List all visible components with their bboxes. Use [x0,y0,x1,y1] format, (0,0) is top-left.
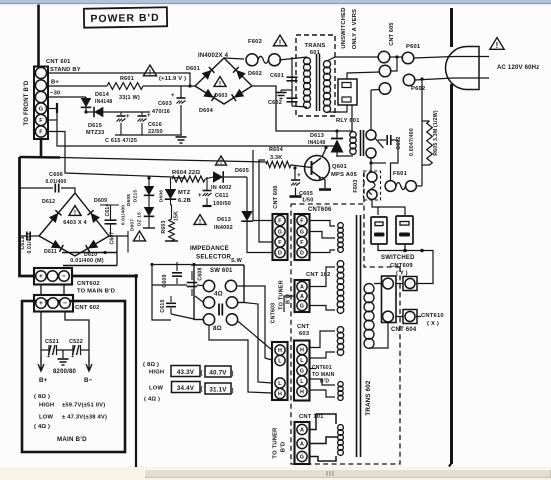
svg-text:C521: C521 [45,339,59,345]
svg-text:−30: −30 [50,91,60,97]
svg-text:D604: D604 [199,108,214,114]
svg-text:RLY 601: RLY 601 [336,118,360,124]
wire SW601 frame top [191,264,244,266]
svg-text:D611: D611 [44,249,57,255]
svg-text:D603: D603 [214,93,227,99]
svg-text:C608: C608 [198,267,204,280]
svg-text:8Ω: 8Ω [213,325,222,332]
capacitor C616 22/50 [141,112,143,115]
svg-text:G: G [39,107,43,113]
svg-text:D615: D615 [88,123,102,129]
svg-text:POWER B'D: POWER B'D [90,12,159,25]
svg-text:D609: D609 [94,198,107,204]
svg-text:SWITCHED: SWITCHED [381,255,415,261]
svg-text:D608: D608 [126,194,132,206]
connector CNT605 pin 1 [378,51,390,63]
svg-text:TO MAIN B’D: TO MAIN B’D [77,289,115,295]
svg-text:43.3V: 43.3V [177,369,195,376]
svg-text:+: + [147,113,151,119]
svg-text:H: H [300,390,304,396]
svg-text:G: G [300,304,304,310]
svg-text:D602: D602 [248,71,262,77]
wire B+ to R601 [47,85,107,87]
wires CNT602 to CNT602 [40,285,42,296]
svg-text:): ) [232,388,234,394]
svg-text:± 47.3V(±38 4V): ± 47.3V(±38 4V) [62,415,107,421]
svg-text:G: G [300,230,304,236]
capacitor C612 [378,139,386,141]
AC outlet switched 2 [396,216,413,244]
wire W3 from CNT601 F pins [47,119,57,121]
heavy wire CNT602 to ground rail [72,275,136,278]
trans602 winding B [337,261,344,268]
svg-text:B+: B+ [51,80,59,86]
ground under C605 [290,195,302,198]
svg-text:R604 22Ω: R604 22Ω [172,170,200,176]
connector CNT610 (X) keyed pin [403,310,417,324]
svg-text:1/50: 1/50 [302,198,314,204]
svg-text:H: H [300,348,304,354]
svg-text:CNT602: CNT602 [77,281,100,287]
warning triangle near zeners [133,231,145,241]
wire STAND BY rail [47,73,190,86]
svg-text:HIGH: HIGH [39,403,54,409]
svg-text:F: F [39,118,43,124]
svg-text:0.01/400: 0.01/400 [121,205,127,225]
warning triangle inside bridge 2 [69,206,81,216]
svg-text:D601: D601 [186,66,200,72]
svg-text:R605 3.3M (1/2W): R605 3.3M (1/2W) [433,110,439,156]
svg-text:CNT: CNT [297,324,310,330]
trans602 winding for CNT606 [338,223,344,229]
svg-text:A: A [300,285,304,291]
capacitor C602 [287,97,298,99]
svg-text:+: + [126,114,130,120]
svg-text:34.4V: 34.4V [177,385,195,392]
svg-text:F: F [278,240,282,246]
wire F602 to transformer [279,57,307,60]
wires SW601 to CNT1603 [238,321,272,350]
svg-text:L: L [300,358,304,364]
svg-text:(: ( [201,371,203,377]
wire trans601 secondary top [327,57,378,61]
svg-text:!: ! [199,218,201,225]
svg-text:C616: C616 [148,122,162,128]
svg-text:F: F [300,219,304,225]
transformer TRANS 602 primary coil [364,284,374,294]
svg-text:TRANS: TRANS [305,43,326,49]
wire bridge1 positive output to relay bus [252,86,337,131]
svg-text:−: − [63,300,67,307]
svg-text:IN4148: IN4148 [95,99,112,105]
svg-text:D605: D605 [235,168,249,174]
svg-text:CNT 604: CNT 604 [391,327,417,333]
board outline MAIN B'D [22,301,125,452]
svg-text:DZ15: DZ15 [133,190,139,203]
AC plug [446,47,480,90]
wire SW601 frame right [243,265,245,303]
wire Q601 collector [322,148,326,157]
svg-text:TRANS 602: TRANS 602 [365,380,372,416]
svg-text:G: G [300,455,304,461]
relay switch contact lower [366,148,376,158]
svg-text:+: + [39,273,43,280]
svg-text:SELECTOR: SELECTOR [196,254,232,261]
relay coil RLY601 [350,132,356,138]
junction dot CNT602 rail [134,274,138,278]
heavy mains vertical line lower segment [450,84,453,464]
svg-text:15K: 15K [174,211,180,221]
svg-text:C601: C601 [270,73,284,79]
wire riser x117 [116,236,118,266]
svg-text:±59.7V(±51 0V): ±59.7V(±51 0V) [62,403,105,409]
wire CNT609 pin link [396,283,403,285]
svg-text:470/16: 470/16 [152,109,170,115]
svg-text:AC 120V 60Hz: AC 120V 60Hz [497,65,539,71]
diode D605 IN4002 [213,171,223,183]
svg-text:TO TUNER: TO TUNER [273,427,279,459]
svg-text:6403 X 4: 6403 X 4 [63,220,87,226]
svg-text:D614: D614 [95,92,110,98]
svg-text:L: L [278,359,282,365]
connector CNT606 left column [273,214,288,260]
svg-text:603: 603 [299,331,310,337]
heavy ground vertical wire [135,276,137,467]
svg-text:33(1 W): 33(1 W) [119,95,140,101]
svg-text:MTZ33: MTZ33 [86,130,104,136]
svg-text:L: L [300,379,304,385]
svg-text:LOW: LOW [149,386,163,392]
svg-text:(+11.9 V ): (+11.9 V ) [159,76,186,82]
diode D615 MTZ33 [84,110,87,113]
dashed enclosure around CNT606 and TRANS602 [291,203,364,205]
svg-text:CNT609: CNT609 [390,263,413,269]
svg-text:STAND BY: STAND BY [50,67,81,73]
svg-text:L: L [278,381,282,387]
svg-text:D613: D613 [217,217,231,223]
wire CNT604 pin link [396,316,403,318]
terminal B+ [38,356,44,371]
svg-text:+: + [39,300,43,307]
svg-text:R603: R603 [161,220,167,233]
svg-text:A: A [300,294,304,300]
wire F603 to outlets [372,200,405,216]
wires CNT102 to winding [310,267,336,287]
svg-text:!: ! [74,209,76,216]
heavy wire left vertical [20,157,35,276]
svg-text:C522: C522 [69,339,83,345]
svg-text:A: A [300,428,304,434]
AC outlet switched 1 [371,217,387,244]
svg-text:D: D [278,251,282,257]
svg-text:B+: B+ [39,377,48,384]
svg-text:F601: F601 [393,171,408,177]
svg-text:CNT 102: CNT 102 [306,272,331,278]
warning triangle inside bridge D601-D604 [214,77,226,87]
svg-text:( 4Ω ): ( 4Ω ) [144,397,160,403]
svg-text:C612: C612 [396,136,402,149]
svg-text:TO FRONT B’D: TO FRONT B’D [24,80,30,125]
svg-text:CNT610: CNT610 [421,313,444,319]
svg-text:ONLY A VERS: ONLY A VERS [352,9,358,49]
svg-text:+: + [171,93,175,99]
svg-text:!: ! [496,41,499,50]
wire SW601 frame left [193,265,195,320]
wire CNT610 to mains [416,316,421,318]
svg-text:CNT606: CNT606 [308,207,332,213]
heavy mains vertical line top segment [450,8,453,47]
wire outlets bottom bus [378,244,422,251]
transformer TRANS 602 core [356,215,358,457]
svg-text:IMPEDANCE: IMPEDANCE [190,245,229,252]
fuse holder F603 [367,172,377,182]
wire relay to unswitched rail [347,72,380,79]
capacitor at CNT601 G pin [47,108,57,110]
svg-text:B’D: B’D [281,442,287,453]
warning triangle near D613 [194,215,206,225]
wires CNT101 to winding [310,414,337,430]
switch SW601 contacts [203,280,214,291]
svg-text:S.W: S.W [231,258,243,264]
wire RLY601 bottom to bus [351,105,353,131]
svg-text:TO TUNER: TO TUNER [279,280,285,310]
svg-text:31.1V: 31.1V [209,387,227,394]
svg-text:IN4002: IN4002 [214,225,233,231]
svg-text:8200/80: 8200/80 [53,369,77,375]
svg-text:MPS A05: MPS A05 [331,172,358,178]
capacitor C605 1/50 [293,166,296,169]
wire B+ rail [40,312,42,357]
svg-text:R601: R601 [120,76,134,82]
svg-text:( Y ): ( Y ) [396,271,408,277]
wires CNT603 to windings [310,331,336,348]
svg-text:−: − [62,273,66,280]
wires CNT606 to trans602 winding [310,221,336,227]
svg-text:+: + [47,354,50,360]
connector CNT606 right column [295,214,310,260]
svg-text:H: H [278,348,282,354]
trans602 winding D [338,382,343,387]
relay switch contact upper [366,130,376,140]
connector CNT605 pin 2 [379,65,391,77]
capacitor C601 [291,57,293,106]
svg-text:D: D [300,251,304,257]
svg-text:!: ! [220,159,222,166]
svg-text:!: ! [279,38,281,47]
capacitor inside SW601 [218,304,220,316]
wire lower bus to ground [115,134,182,136]
svg-text:D612: D612 [42,199,55,205]
wire trans601 secondary bottom to relay [327,105,347,112]
ground between C601 C602 [281,89,292,91]
diode D614 IN4148 [85,97,87,98]
svg-text:IN4148: IN4148 [308,140,325,146]
resistor R605 3.3M (1/2W) [422,120,430,122]
svg-text:( 8Ω ): ( 8Ω ) [143,362,159,368]
connector CNT602 upper [34,268,72,285]
heavy vertical foot [449,463,452,467]
svg-text:SW 601: SW 601 [210,268,233,274]
svg-text:(: ( [201,387,203,393]
capacitor C603 470/16 [180,86,182,98]
trans602 winding C [337,327,343,333]
svg-text:MTZ: MTZ [178,190,191,196]
svg-text:C609: C609 [162,274,168,287]
svg-text:TO MAIN: TO MAIN [312,372,335,378]
wire CNT605 pin3 to contact [371,89,379,92]
svg-text:C607: C607 [110,232,116,245]
wire contact junction [370,158,372,172]
svg-text:D607: D607 [130,219,136,231]
svg-text:( X ): ( X ) [427,321,439,327]
bottom scrollbar strip [0,467,551,480]
svg-text:CNT603: CNT603 [271,303,277,324]
svg-text:C602: C602 [268,100,282,106]
svg-text:40.7V: 40.7V [209,370,227,377]
connector CNT603 right column [294,341,310,401]
svg-text:F: F [300,240,304,246]
svg-text:4Ω: 4Ω [214,291,223,298]
svg-text:+: + [71,354,74,360]
svg-text:Q601: Q601 [332,164,348,170]
svg-text:CNT 601: CNT 601 [46,59,71,65]
svg-text:HIGH: HIGH [149,370,164,376]
svg-text:F602: F602 [248,39,262,45]
svg-text:C603: C603 [158,101,172,107]
svg-text:P601: P601 [406,44,421,50]
warning triangle near R601 [143,65,156,76]
ground under C603 [176,136,187,138]
warning triangle above D605 [216,156,227,165]
svg-text:+: + [297,172,301,179]
svg-text:6.2B: 6.2B [178,198,191,204]
connector CNT605 pin 3 [379,83,391,95]
svg-text:( 4Ω ): ( 4Ω ) [34,424,50,430]
connector CNT1603 left column [272,342,288,400]
svg-text:!: ! [138,235,140,242]
wire W1 common rail [57,113,337,146]
wire W3 extension [172,177,185,179]
svg-text:CNT 605: CNT 605 [389,22,395,45]
svg-text:0.0047/400: 0.0047/400 [409,128,415,156]
wire contact c1 up [370,90,372,130]
wires CNT606 left leads [253,150,273,221]
diode D613 IN4002 [246,177,248,211]
plug pin P602 [403,74,415,86]
svg-text:F: F [278,219,282,225]
svg-text:D606: D606 [159,190,165,202]
transistor Q601 MPS A05 [305,156,330,181]
wire unswitched rail to P601 [390,56,402,58]
svg-text:IN 4002: IN 4002 [211,185,232,191]
svg-text:( 8Ω ): ( 8Ω ) [34,394,50,400]
svg-text:MAIN B’D: MAIN B’D [57,436,87,443]
svg-text:0.01/400 (M): 0.01/400 (M) [70,258,104,264]
wire top feed vertical into CNT601 [37,5,40,67]
wire CNT609 to switched outlets [416,251,433,284]
svg-text:C611: C611 [215,193,229,199]
warning triangle near F602 [273,35,286,46]
title box POWER B'D [84,7,167,27]
svg-text:!: ! [219,80,221,87]
svg-text:G: G [278,230,282,236]
svg-text:C606: C606 [49,172,63,178]
svg-text:D613: D613 [310,133,324,139]
browser chrome top bar [0,0,551,3]
transformer TRANS 601 [296,35,335,116]
svg-text:F: F [39,130,43,136]
wire bridge2 bottom bus lower [63,265,117,267]
capacitor C615 [120,112,122,115]
relay RLY601 contacts box [338,79,357,105]
connector CNT602 lower [34,295,73,312]
svg-text:C610: C610 [160,299,166,312]
svg-text:): ) [232,371,234,377]
terminal B- [86,356,92,371]
capacitor C611 100/50 [206,177,208,190]
svg-text:A: A [300,442,304,448]
svg-text:B−: B− [84,377,93,384]
connector CNT609 keyed pin [403,277,417,291]
svg-text:H: H [278,392,282,398]
svg-text:P602: P602 [411,86,425,92]
ground in MAIN B'D [62,350,64,358]
wire CNT601 bottom feed [40,139,43,157]
wire B- rail [65,312,89,357]
heavy wire W2 to R604 3.3K [20,156,61,159]
svg-text:!: ! [149,68,151,77]
svg-text:22/50: 22/50 [148,129,163,135]
svg-text:LOW: LOW [39,415,53,421]
svg-text:DZ 15: DZ 15 [137,212,143,226]
warning triangle near plug [490,38,504,50]
svg-text:F603: F603 [353,179,359,192]
svg-text:CNT 606: CNT 606 [273,185,279,208]
wire P602 branch down to F601 [421,79,423,186]
svg-text:G: G [300,369,304,375]
wire Q601 emitter to ground [322,177,325,188]
svg-text:CNT 101: CNT 101 [299,414,324,420]
svg-text:C 615 47/25: C 615 47/25 [105,138,137,144]
svg-text:CNT 602: CNT 602 [75,305,100,311]
wire -30 to D614 [47,96,86,98]
svg-text:+: + [198,193,202,199]
svg-text:100/50: 100/50 [213,201,231,207]
wires capacitor cluster [152,265,171,321]
wire bridge2 bottom bus upper [62,252,117,254]
svg-text:R604: R604 [269,147,284,153]
trans602 winding E [338,425,344,431]
svg-text:3.3K: 3.3K [270,155,282,161]
bridge rectifier D609-D612 6403X4 [39,193,109,256]
svg-text:UNSWITCHED: UNSWITCHED [341,7,347,48]
